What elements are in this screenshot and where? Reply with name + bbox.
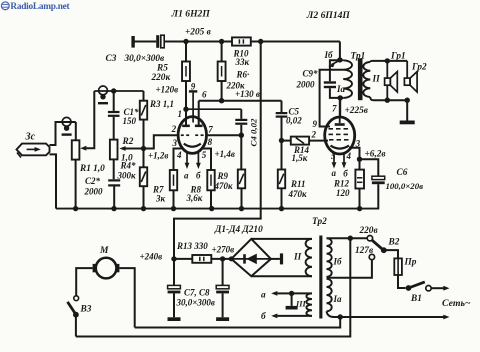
junction R10 right xyxy=(258,39,263,44)
svg-text:220в: 220в xyxy=(359,226,378,236)
label Iб of Тр1 xyxy=(324,50,334,60)
wire R8 to bus xyxy=(210,190,212,208)
label В3 xyxy=(80,305,92,315)
junction Тр1 primary top xyxy=(337,57,342,62)
chassis bar bridge xyxy=(280,253,283,264)
svg-text:а: а xyxy=(184,171,189,181)
label б heater Л1 xyxy=(196,171,201,181)
junction C8 node xyxy=(220,256,225,261)
wire В2 to fuse xyxy=(384,250,398,258)
svg-text:3: 3 xyxy=(172,138,178,148)
label R3 1,1 xyxy=(149,99,174,109)
RadioLamp.net logo xyxy=(1,2,70,12)
tube Л1 grid 1 dashes xyxy=(181,134,189,136)
svg-text:Iа: Iа xyxy=(333,294,343,304)
label pin 9 of Л2 xyxy=(313,119,318,129)
label Д1-Д4 Д210 xyxy=(214,225,263,235)
wire line A xyxy=(135,317,341,328)
label R9 470к xyxy=(214,171,234,191)
resistor R4 xyxy=(140,149,147,187)
wire speakers to chassis xyxy=(406,100,408,120)
tube Л2 anode bar xyxy=(335,98,345,125)
label pin 7 of Л2 xyxy=(332,104,337,114)
wire C6 to bus xyxy=(377,184,379,209)
wire C3 negative lead xyxy=(133,41,156,43)
junction R5 top xyxy=(183,39,188,44)
svg-text:Iа: Iа xyxy=(336,84,346,94)
B+ bus wire xyxy=(164,41,340,43)
tube Л1 anode 1 xyxy=(182,125,190,128)
svg-text:+1,4в: +1,4в xyxy=(215,149,235,159)
label +240в xyxy=(140,251,163,261)
label Тр2 xyxy=(312,217,327,227)
junction bridge left xyxy=(229,256,234,261)
svg-text:Д1-Д4 Д210: Д1-Д4 Д210 xyxy=(214,225,263,235)
label Тр1 xyxy=(351,52,366,62)
label C1* 150 xyxy=(123,107,140,126)
wire cathode 2 to R8 xyxy=(202,149,211,171)
tube Л2 grid rows xyxy=(329,129,349,140)
label +1,4в xyxy=(215,149,235,159)
wire C1 to R2 xyxy=(113,117,115,140)
svg-text:RadioLamp.net: RadioLamp.net xyxy=(10,2,70,12)
svg-text:Пр: Пр xyxy=(404,258,417,268)
core of Тр2 xyxy=(319,236,322,319)
wire motor right to line A xyxy=(119,268,134,327)
svg-text:С6: С6 xyxy=(397,168,408,178)
svg-text:7: 7 xyxy=(208,125,213,135)
mains wire 2 xyxy=(340,315,449,320)
svg-text:6: 6 xyxy=(202,90,207,100)
svg-text:С3: С3 xyxy=(106,54,117,64)
heater arrow a of Л1 xyxy=(185,152,190,169)
capacitor C2 xyxy=(108,179,120,186)
resistor R9 xyxy=(238,170,245,189)
resistor R14 xyxy=(282,137,310,145)
junction C2-bus xyxy=(111,206,116,211)
svg-text:+205 в: +205 в xyxy=(185,28,211,38)
svg-text:б: б xyxy=(261,311,266,322)
label R7 3к xyxy=(152,185,166,204)
label Гр2 xyxy=(411,63,427,73)
wiper arrow R2 xyxy=(119,146,143,151)
label C2* 2000 xyxy=(84,176,104,197)
wire primary top to 220в xyxy=(327,237,368,239)
svg-text:В2: В2 xyxy=(388,238,400,248)
heater arrow b of Л2 xyxy=(342,153,347,169)
label pin 5 xyxy=(202,150,207,160)
resistor R5 xyxy=(182,42,190,82)
label C7 C8 30,0×300в xyxy=(176,288,215,308)
label Iа of Тр1 xyxy=(336,84,346,94)
resistor R11 xyxy=(278,170,285,189)
wire C8 to chassis xyxy=(222,293,224,317)
wire bus to Тр1 xyxy=(339,42,341,60)
label R4* 300к xyxy=(117,161,137,181)
svg-text:+130 в: +130 в xyxy=(235,89,260,99)
label pin 4 of Л2 xyxy=(346,151,352,161)
junction anode lead Тр1 xyxy=(338,95,343,100)
svg-text:120: 120 xyxy=(336,188,350,198)
junction R8-bus xyxy=(209,206,214,211)
label Л2 6П14П xyxy=(306,10,351,21)
label R8 3,6к xyxy=(186,185,203,204)
svg-text:9: 9 xyxy=(191,82,196,92)
shield ground symbol 2 xyxy=(98,86,108,104)
switch В1 xyxy=(406,282,432,291)
wire bridge top to winding II xyxy=(251,238,312,240)
junction primary top tap xyxy=(348,236,353,241)
wire motor left to В3 xyxy=(76,268,92,296)
tube Л1 envelope xyxy=(178,117,206,154)
wire C5 to grid node Л2 xyxy=(281,118,283,141)
resistor R7 xyxy=(170,170,177,190)
svg-text:+270в: +270в xyxy=(212,245,235,255)
wire R2 bottom to C2 xyxy=(113,159,115,179)
tap arrow Тр1 xyxy=(328,61,338,67)
speaker Гр1 xyxy=(385,61,398,100)
junction anode 1 node xyxy=(183,107,188,112)
switch В2 xyxy=(372,240,387,253)
fuse Пр xyxy=(394,258,402,275)
svg-text:II: II xyxy=(293,253,302,263)
tube Л2 envelope xyxy=(325,117,355,154)
label pin 3 of Л2 xyxy=(355,139,361,149)
svg-text:470к: 470к xyxy=(288,189,308,199)
wire cathode to C6 xyxy=(360,159,379,176)
junction R9-bus xyxy=(239,206,244,211)
winding Iб of Тр2 primary xyxy=(327,238,332,277)
wire pin 7 to grid2 node xyxy=(206,134,241,136)
label R12 120 xyxy=(333,179,350,199)
chassis bar C7 xyxy=(168,317,181,321)
wire cathode 1 to R7 xyxy=(174,149,184,171)
winding III of Тр2 xyxy=(306,293,312,316)
label +270в xyxy=(212,245,235,255)
junction Гр1 top xyxy=(385,58,390,63)
tube Л2 cathode xyxy=(331,146,350,149)
svg-text:М: М xyxy=(99,246,109,256)
capacitor C1 xyxy=(108,91,120,117)
tube Л1 cathode xyxy=(184,144,201,147)
label а winding xyxy=(261,290,266,300)
wire grid2 node to R9 xyxy=(240,135,242,169)
capacitor C6 electrolytic xyxy=(372,176,385,184)
svg-text:R5: R5 xyxy=(156,64,168,74)
chassis bar speakers xyxy=(400,121,415,125)
svg-text:б: б xyxy=(343,169,348,179)
wire R5 to anode pin 1 xyxy=(185,81,187,126)
resistor R3 xyxy=(140,91,147,120)
wire bridge bottom to winding II xyxy=(251,275,312,277)
wire primary bottom xyxy=(327,311,341,317)
label б heater Л2 xyxy=(343,169,348,179)
wire R7 to bus xyxy=(173,190,175,208)
label +120в xyxy=(156,85,179,95)
input connector Зс xyxy=(17,144,50,158)
svg-text:+120в: +120в xyxy=(156,85,179,95)
svg-text:Сеть~: Сеть~ xyxy=(442,298,471,309)
wire R3 bottom to grid node xyxy=(143,120,145,149)
junction R7-bus xyxy=(171,206,176,211)
label R5 220к xyxy=(151,64,171,84)
svg-text:4: 4 xyxy=(176,150,182,160)
mains wire 1 xyxy=(431,286,449,291)
svg-text:R13 330: R13 330 xyxy=(176,241,208,251)
label 220в xyxy=(359,226,378,236)
junction heater center xyxy=(289,291,294,296)
pin 9 shield bar xyxy=(189,90,197,122)
wire 127в tap xyxy=(327,260,372,278)
ground bus wire xyxy=(56,208,379,210)
wire heater б xyxy=(271,314,312,319)
svg-text:R11: R11 xyxy=(290,179,306,189)
label pin 6 xyxy=(202,90,207,100)
wire C9 branch xyxy=(330,60,340,81)
svg-text:0,02: 0,02 xyxy=(286,116,302,126)
svg-text:300к: 300к xyxy=(117,171,137,181)
svg-text:С9*: С9* xyxy=(303,69,319,79)
winding II of Тр2 xyxy=(306,239,312,276)
svg-text:220к: 220к xyxy=(151,73,171,83)
label а heater Л2 xyxy=(332,168,337,178)
svg-text:1: 1 xyxy=(178,109,183,119)
svg-text:1,5к: 1,5к xyxy=(292,153,308,163)
wire grid node to pin 2 xyxy=(144,135,179,148)
chassis bar heater xyxy=(286,306,298,310)
wire signal node xyxy=(94,90,143,92)
junction R12-bus xyxy=(357,206,362,211)
label Пр xyxy=(404,258,417,268)
svg-text:R6·: R6· xyxy=(236,70,250,80)
wire anode1 to C4 xyxy=(186,108,241,110)
svg-text:Гр2: Гр2 xyxy=(411,63,427,73)
chassis bar at C3 xyxy=(131,36,134,48)
secondary top wire xyxy=(372,60,407,62)
wire R14 to pin 2 of Л2 xyxy=(309,140,328,142)
svg-text:Л1 6Н2П: Л1 6Н2П xyxy=(171,9,211,20)
potentiometer R2 xyxy=(110,140,118,160)
svg-text:Iб: Iб xyxy=(324,50,334,60)
label pin 8 xyxy=(208,137,213,147)
label +6,2в xyxy=(365,150,386,160)
junction Гр1 bottom xyxy=(385,98,390,103)
bridge rectifier Д1-Д4 xyxy=(231,239,271,276)
speaker Гр2 xyxy=(404,61,417,92)
svg-text:+240в: +240в xyxy=(140,251,163,261)
label pin 1 xyxy=(178,109,183,119)
switch В3 xyxy=(68,296,79,318)
label pin 5 of Л2 xyxy=(331,151,336,161)
label R13 330 xyxy=(176,241,208,251)
label В2 xyxy=(388,238,400,248)
svg-text:30,0×300в: 30,0×300в xyxy=(124,54,165,64)
wire R10 to +240в node xyxy=(174,42,261,259)
wire В3 to line B xyxy=(75,315,77,337)
junction R6 top xyxy=(219,39,224,44)
label R6 220к xyxy=(226,70,250,91)
label +225в xyxy=(345,106,368,116)
label pin 9 of Л1 xyxy=(191,82,196,92)
wiper arrow R1 xyxy=(80,91,94,151)
wire R12 to bus xyxy=(359,189,361,209)
junction grid node Л2 xyxy=(279,138,284,143)
wire line B xyxy=(76,238,350,336)
svg-text:8: 8 xyxy=(208,137,213,147)
label Iб primary xyxy=(333,257,343,267)
capacitor C4 xyxy=(235,109,247,125)
label pin 2 of Л2 xyxy=(311,130,317,140)
wire cathode Л2 xyxy=(349,148,360,159)
junction C1 top xyxy=(111,88,116,93)
label pin 2 xyxy=(171,124,177,134)
label R2 1,0 xyxy=(121,137,134,164)
junction Гр2 bottom xyxy=(405,98,410,103)
svg-text:2: 2 xyxy=(311,130,317,140)
label б winding xyxy=(261,311,266,322)
svg-text:R9: R9 xyxy=(217,171,229,181)
svg-text:2: 2 xyxy=(171,124,177,134)
wire input signal to shield xyxy=(50,122,76,145)
svg-text:R12: R12 xyxy=(333,179,350,189)
svg-text:+225в: +225в xyxy=(345,106,368,116)
wire R4 to bus xyxy=(143,186,145,208)
resistor R8 xyxy=(207,170,214,190)
label R10 33к xyxy=(233,49,250,68)
svg-text:R3 1,1: R3 1,1 xyxy=(149,99,174,109)
resistor R10 xyxy=(232,37,251,45)
wire heater а xyxy=(271,291,312,296)
wire input sleeve to ground bus xyxy=(50,154,57,208)
wire C2 to bus xyxy=(113,187,115,209)
svg-text:100,0×20в: 100,0×20в xyxy=(386,181,424,191)
terminal 220в xyxy=(367,236,372,241)
label а heater Л1 xyxy=(184,171,189,181)
label R1 1,0 xyxy=(79,164,105,174)
svg-text:В1: В1 xyxy=(410,294,422,304)
chassis bar C8 xyxy=(216,317,229,321)
heater arrow b of Л1 xyxy=(196,152,201,169)
label R11 470к xyxy=(288,179,308,199)
junction pin6 node xyxy=(219,98,224,103)
label C6 100,0×20в xyxy=(386,168,424,191)
label Л1 6Н2П xyxy=(171,9,211,20)
svg-text:б: б xyxy=(196,171,201,181)
label Сеть~ xyxy=(442,298,471,309)
wire heater center to chassis xyxy=(291,293,293,306)
junction mains node xyxy=(338,314,343,319)
label +130 в xyxy=(235,89,260,99)
svg-text:Зс: Зс xyxy=(25,132,36,143)
svg-text:С7, С8: С7, С8 xyxy=(184,288,210,298)
shield ground symbol 1 xyxy=(62,117,72,135)
svg-text:II: II xyxy=(372,75,381,85)
capacitor C3 electrolytic xyxy=(156,35,164,48)
svg-text:Тр1: Тр1 xyxy=(351,52,366,62)
resistor R13 xyxy=(174,255,211,263)
junction grid2 node xyxy=(239,133,244,138)
svg-text:3,6к: 3,6к xyxy=(186,193,203,203)
svg-text:С4 0,02: С4 0,02 xyxy=(249,118,259,146)
label II of Тр2 xyxy=(293,253,302,263)
label Iа primary xyxy=(333,294,343,304)
svg-text:30,0×300в: 30,0×300в xyxy=(176,298,215,308)
label C3 30,0×300в xyxy=(106,54,165,64)
svg-text:9: 9 xyxy=(313,119,318,129)
svg-text:4: 4 xyxy=(346,151,352,161)
tube Л1 grid 2 dashes xyxy=(195,134,203,136)
junction R4-bus xyxy=(141,206,146,211)
capacitor C8 xyxy=(216,259,229,294)
label R14 1,5к xyxy=(292,145,310,163)
winding II of Тр1 xyxy=(363,61,373,100)
tube Л1 anode 2 xyxy=(195,125,203,128)
secondary bottom wire xyxy=(373,99,407,101)
svg-text:2000: 2000 xyxy=(296,80,316,90)
junction cathode node Л2 xyxy=(357,157,362,162)
label Гр1 xyxy=(390,52,406,62)
terminal 127в xyxy=(369,254,374,259)
junction +240в node xyxy=(171,256,176,261)
svg-text:150: 150 xyxy=(123,116,137,126)
label Зс xyxy=(25,132,36,143)
svg-text:В3: В3 xyxy=(80,305,92,315)
svg-text:R2: R2 xyxy=(122,137,134,147)
svg-text:470к: 470к xyxy=(214,181,234,191)
svg-text:Гр1: Гр1 xyxy=(390,52,406,62)
svg-text:7: 7 xyxy=(332,104,337,114)
svg-text:5: 5 xyxy=(202,150,207,160)
svg-text:Л2 6П14П: Л2 6П14П xyxy=(306,10,351,21)
wire fuse to В1 xyxy=(398,275,406,288)
capacitor C7 xyxy=(168,259,181,294)
svg-text:Тр2: Тр2 xyxy=(312,217,327,227)
wire R13 to bridge xyxy=(211,258,231,260)
svg-text:3к: 3к xyxy=(155,194,166,204)
capacitor C5 xyxy=(276,101,288,118)
label +1,2в xyxy=(148,150,168,160)
label C5 0,02 xyxy=(286,107,302,126)
svg-text:R1 1,0: R1 1,0 xyxy=(79,164,105,174)
wire grid node to R11 xyxy=(281,141,283,170)
wire C9 to primary bottom xyxy=(330,88,343,98)
label II of Тр1 xyxy=(372,75,381,85)
svg-text:+1,2в: +1,2в xyxy=(148,150,168,160)
motor M xyxy=(93,258,120,279)
junction R11-bus xyxy=(279,206,284,211)
svg-text:33к: 33к xyxy=(235,57,250,67)
label М xyxy=(99,246,109,256)
label В1 xyxy=(410,294,422,304)
junction grid node xyxy=(141,146,146,151)
potentiometer R1 xyxy=(72,140,80,159)
label pin 7 of Л1 xyxy=(208,125,213,135)
heater arrow a of Л2 xyxy=(332,153,337,169)
wire Тр1 to anode pin 7 xyxy=(339,98,341,118)
resistor R12 xyxy=(355,159,364,188)
resistor R6 xyxy=(218,42,226,82)
label pin 3 xyxy=(172,138,178,148)
svg-text:а: а xyxy=(332,168,337,178)
screen pin 9 wire xyxy=(320,70,344,127)
wire bridge right to chassis xyxy=(271,258,280,260)
label III of Тр2 xyxy=(295,300,306,309)
wire R1 bottom to bus xyxy=(75,160,77,209)
wire R9 to bus xyxy=(241,188,243,208)
label C4 0,02 rotated xyxy=(249,118,259,146)
junction R1-bus xyxy=(73,206,78,211)
wire R11 to bus xyxy=(281,188,283,208)
